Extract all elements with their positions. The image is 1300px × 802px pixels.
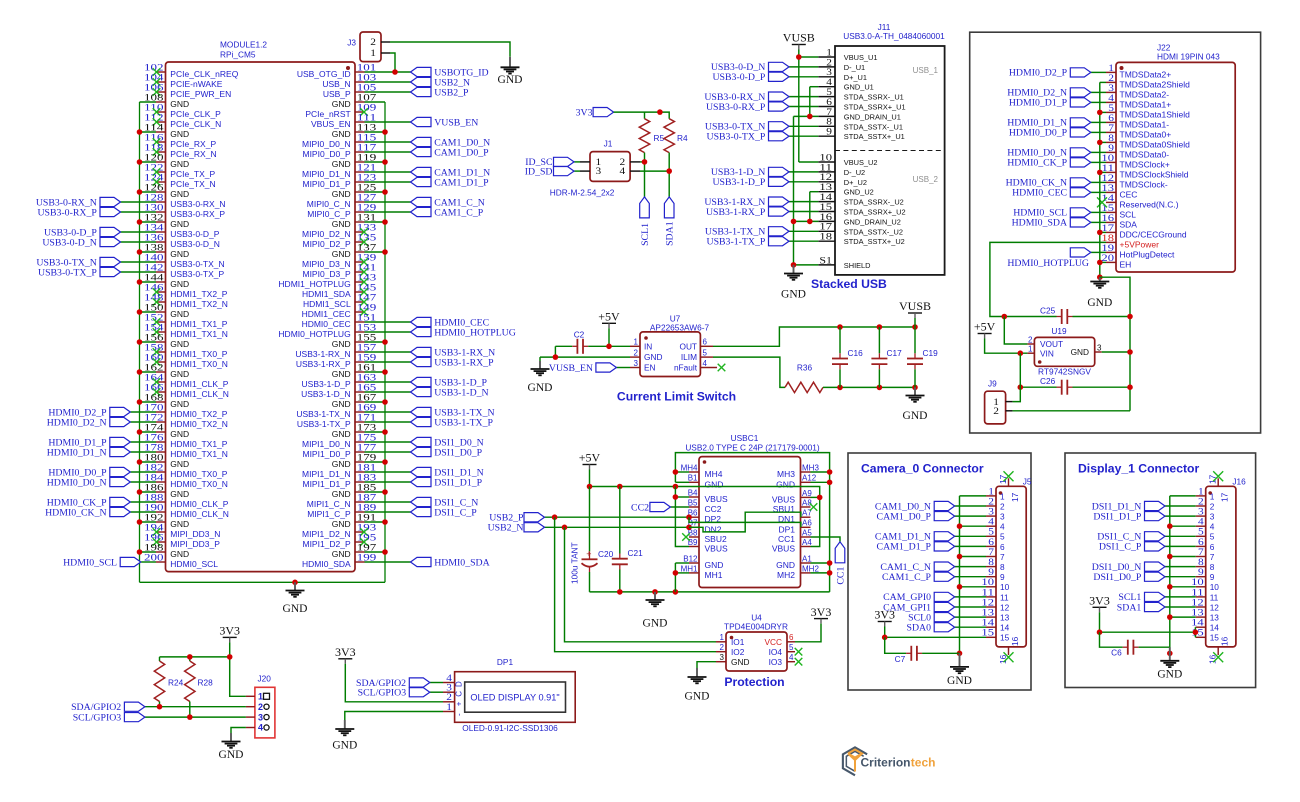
node USB3-0-D_P (44, 227, 121, 238)
junction J1 pin4 (666, 168, 672, 174)
svg-text:MIPI0_C_P: MIPI0_C_P (307, 209, 351, 219)
svg-text:Reserved(N.C.): Reserved(N.C.) (1120, 199, 1179, 209)
svg-text:C26: C26 (1040, 376, 1056, 386)
node SCL/GPIO3 at J20 (73, 712, 246, 723)
svg-text:R5: R5 (654, 133, 665, 143)
wire C26 (1020, 386, 1130, 388)
svg-text:USB2_N: USB2_N (488, 523, 524, 534)
svg-text:GND: GND (332, 489, 351, 499)
svg-text:CC1: CC1 (835, 567, 846, 585)
power VUSB at J11 (783, 31, 815, 50)
svg-text:HDMI0_D2_P: HDMI0_D2_P (1009, 68, 1068, 79)
svg-text:5: 5 (1210, 532, 1215, 542)
svg-text:USB3-0-RX_P: USB3-0-RX_P (170, 209, 225, 219)
svg-text:SCL/GPIO3: SCL/GPIO3 (358, 688, 407, 699)
svg-text:J1: J1 (604, 139, 613, 149)
svg-text:USB3.0-A-TH_0484060001: USB3.0-A-TH_0484060001 (843, 31, 945, 41)
svg-text:4: 4 (1000, 522, 1005, 532)
wire J9 pin2 (1013, 410, 1130, 412)
svg-text:TMDSData2Shield: TMDSData2Shield (1120, 79, 1191, 89)
ic U19 RT9742SNGV (1027, 326, 1102, 377)
svg-text:GND: GND (170, 279, 189, 289)
ground J11 (781, 265, 806, 301)
svg-text:TMDSData1-: TMDSData1- (1120, 119, 1170, 129)
wire C6 to GND rail (1139, 646, 1170, 648)
svg-text:nFault: nFault (674, 363, 698, 373)
svg-text:1: 1 (720, 633, 725, 642)
module right net label wires (365, 72, 411, 562)
svg-text:3: 3 (1210, 512, 1215, 522)
svg-text:MH1: MH1 (681, 564, 698, 573)
wire USBC1 bottom GND rail (590, 591, 830, 593)
power 3V3 at J16 (1089, 594, 1110, 613)
svg-text:+5V: +5V (579, 451, 601, 465)
svg-text:MIPI1_D2_P: MIPI1_D2_P (302, 539, 351, 549)
resistor R4 (664, 119, 688, 153)
junctions J5 GND rail (957, 523, 963, 656)
svg-text:GND_U1: GND_U1 (844, 83, 874, 92)
display DP1 OLED (443, 657, 575, 733)
capacitor C21 (612, 487, 643, 592)
resistor R28 (185, 661, 214, 702)
svg-text:C7: C7 (895, 654, 906, 664)
node 3V3 label at J1 (576, 107, 614, 118)
svg-text:GND: GND (170, 99, 189, 109)
svg-text:R4: R4 (677, 133, 688, 143)
junction VUSB pin1 (796, 54, 802, 60)
svg-text:MH2: MH2 (777, 570, 795, 580)
ground U7 (528, 361, 553, 394)
svg-text:MIPI0_C_N: MIPI0_C_N (307, 199, 351, 209)
svg-text:USB3-0-RX_P: USB3-0-RX_P (706, 102, 766, 113)
svg-text:1: 1 (1000, 491, 1005, 501)
svg-text:VCC: VCC (764, 637, 782, 647)
junction U7 GND C2 (553, 354, 559, 360)
no-connect J5 pin17 (1004, 471, 1014, 481)
junction R24 SDA (157, 704, 163, 710)
svg-text:HDMI1_SDA: HDMI1_SDA (302, 289, 351, 299)
svg-text:STDA_SSTX-_U2: STDA_SSTX-_U2 (844, 227, 903, 236)
svg-text:MIPI0_D0_N: MIPI0_D0_N (302, 139, 351, 149)
node HDMI0_SCL at J22 (1013, 208, 1091, 219)
svg-text:USB3-0-RX_P: USB3-0-RX_P (37, 207, 97, 218)
node DSI1_C_P (411, 507, 478, 518)
svg-text:MIPI1_C_N: MIPI1_C_N (307, 499, 351, 509)
svg-text:GND: GND (903, 410, 928, 422)
svg-text:HDMI0_TX0_P: HDMI0_TX0_P (170, 469, 227, 479)
no-connect U4 IO3 (795, 658, 803, 666)
svg-text:D: D (455, 681, 464, 687)
ground J16 (1157, 647, 1182, 681)
svg-text:DDC/CECGround: DDC/CECGround (1120, 229, 1187, 239)
svg-text:MIPI_DD3_P: MIPI_DD3_P (170, 539, 220, 549)
svg-text:4: 4 (703, 359, 708, 368)
svg-text:GND: GND (170, 519, 189, 529)
svg-text:15: 15 (1210, 633, 1220, 643)
junction U19 GND rail (1127, 349, 1133, 355)
junction C25 right (1127, 314, 1133, 320)
svg-text:GND: GND (170, 129, 189, 139)
svg-text:13: 13 (1210, 613, 1220, 623)
svg-text:C20: C20 (598, 549, 614, 559)
svg-text:2: 2 (370, 37, 376, 48)
connector USBC1 USB2.0 TYPE C 24P (681, 433, 820, 588)
node HDMI0_D2_N at J22 (1007, 88, 1091, 99)
svg-text:18: 18 (819, 232, 832, 243)
wire 3V3 to pins 14 15 (1100, 612, 1196, 637)
node CC2 (631, 502, 689, 513)
node CAM1_D1_N at J5 (875, 532, 955, 543)
svg-text:USB3-1-TX_N: USB3-1-TX_N (296, 409, 350, 419)
wires J11 signal labels (789, 67, 818, 241)
svg-text:GND: GND (170, 309, 189, 319)
svg-text:USB3-0-TX_P: USB3-0-TX_P (38, 267, 97, 278)
svg-text:GND: GND (776, 560, 795, 570)
svg-text:Criterion: Criterion (861, 755, 911, 769)
svg-text:USB2_P: USB2_P (434, 87, 469, 98)
border Display_1 Connector section (1065, 453, 1256, 688)
svg-text:9: 9 (1000, 572, 1005, 582)
svg-text:HDMI0_CEC: HDMI0_CEC (1012, 188, 1067, 199)
svg-text:3V3: 3V3 (1089, 594, 1110, 608)
svg-text:10: 10 (1210, 582, 1220, 592)
svg-text:HDMI0_TX2_P: HDMI0_TX2_P (170, 409, 227, 419)
node DSI1_D0_N (411, 437, 484, 448)
svg-text:USB3-1-RX_P: USB3-1-RX_P (434, 357, 494, 368)
svg-text:+5V: +5V (974, 320, 996, 334)
wire C25 right (1073, 316, 1131, 318)
no-connect J16 pin16 (1213, 652, 1223, 662)
svg-text:STDA_SSTX+_U1: STDA_SSTX+_U1 (844, 132, 905, 141)
node USB3-0-RX_P (37, 207, 120, 218)
svg-text:+5V: +5V (598, 310, 620, 324)
svg-text:2: 2 (258, 702, 263, 712)
svg-text:USB3-1-RX_P: USB3-1-RX_P (296, 359, 351, 369)
ground J5 (947, 653, 972, 687)
svg-text:1: 1 (446, 702, 452, 713)
svg-text:SDA1: SDA1 (1117, 602, 1142, 613)
svg-text:9: 9 (1210, 572, 1215, 582)
svg-text:MIPI0_D1_N: MIPI0_D1_N (302, 169, 351, 179)
svg-text:MIPI1_D0_N: MIPI1_D0_N (302, 439, 351, 449)
wire A5 to CC1 (811, 537, 841, 542)
svg-text:1: 1 (634, 338, 639, 347)
no-connect SBU1 (810, 503, 818, 511)
no-connect U4 IO4 (795, 648, 803, 656)
svg-text:CAM1_C_P: CAM1_C_P (434, 207, 484, 218)
wire VUSB rail J11 (799, 50, 819, 163)
svg-text:MH1: MH1 (705, 570, 723, 580)
svg-text:HDMI0_D1_P: HDMI0_D1_P (1009, 98, 1068, 109)
node HDMI0_D1_P (48, 437, 130, 448)
module left net label wires (121, 202, 157, 562)
junctions J16 GND rail (1167, 523, 1173, 656)
svg-text:A1: A1 (802, 554, 812, 563)
capacitor C7 (895, 646, 923, 664)
svg-text:HDMI 19PIN 043: HDMI 19PIN 043 (1157, 51, 1220, 61)
svg-text:A5: A5 (802, 528, 812, 537)
svg-text:J16: J16 (1232, 477, 1246, 487)
svg-text:SCL/GPIO3: SCL/GPIO3 (73, 712, 122, 723)
svg-text:-: - (455, 713, 464, 716)
module right pins (278, 62, 387, 569)
connector J9 (985, 379, 1013, 424)
node CAM1_D0_N at J5 (875, 501, 955, 512)
text Protection (724, 675, 784, 689)
node HDMI0_CK_N (45, 507, 130, 518)
svg-text:A6: A6 (802, 519, 812, 528)
svg-text:USBC1: USBC1 (731, 433, 759, 443)
node HDMI0_D1_N at J22 (1007, 118, 1091, 129)
svg-text:C6: C6 (1111, 648, 1122, 658)
svg-text:MIPI0_D3_N: MIPI0_D3_N (302, 259, 351, 269)
wires J16 labels (1165, 506, 1196, 607)
svg-text:A8: A8 (802, 498, 812, 507)
svg-text:A4: A4 (802, 538, 812, 547)
svg-text:16: 16 (1010, 636, 1020, 646)
svg-text:CC1: CC1 (778, 534, 795, 544)
svg-text:12: 12 (1000, 602, 1010, 612)
svg-text:C17: C17 (887, 348, 903, 358)
svg-text:GND: GND (170, 459, 189, 469)
no-connect J22 pin14 (1097, 197, 1107, 207)
wire 3V3 down to cap (885, 637, 906, 653)
svg-text:HDMI0_CLK_P: HDMI0_CLK_P (170, 499, 228, 509)
svg-text:STDA_SSRX-_U2: STDA_SSRX-_U2 (844, 198, 904, 207)
connector J11 USB3.0-A-TH stacked USB (818, 22, 945, 275)
svg-text:tech: tech (911, 755, 936, 769)
svg-text:HDMI0_SDA: HDMI0_SDA (302, 559, 351, 569)
svg-text:GND: GND (332, 249, 351, 259)
svg-text:HDMI1_TX1_N: HDMI1_TX1_N (170, 329, 228, 339)
node DSI1_D0_N at J16 (1092, 562, 1165, 573)
svg-text:B1: B1 (688, 474, 698, 483)
svg-text:4: 4 (789, 653, 794, 662)
node USBOTG_ID (411, 67, 489, 78)
svg-text:3: 3 (1000, 512, 1005, 522)
svg-text:HDMI0_SCL: HDMI0_SCL (63, 557, 117, 568)
svg-text:PCIe_CLK_P: PCIe_CLK_P (170, 109, 221, 119)
wire 3V3 to DP1 pin2 (345, 664, 443, 702)
svg-text:PCIE-nWAKE: PCIE-nWAKE (170, 79, 222, 89)
svg-text:B4: B4 (688, 488, 698, 497)
svg-text:GND: GND (947, 675, 972, 687)
node SCL1 (640, 197, 651, 246)
no-connect J5 pin16 (1004, 652, 1014, 662)
svg-text:DSI1_D0_P: DSI1_D0_P (1093, 572, 1141, 583)
svg-text:+: + (586, 549, 591, 559)
svg-text:SDA1: SDA1 (665, 221, 676, 246)
node CAM1_C_P at J5 (882, 572, 955, 583)
svg-text:HDMI1_SCL: HDMI1_SCL (303, 299, 351, 309)
svg-text:CAM1_D0_P: CAM1_D0_P (434, 147, 489, 158)
svg-text:16: 16 (1220, 636, 1230, 646)
node USB3-1-D_P at J11 (712, 177, 789, 188)
svg-text:2: 2 (1000, 501, 1005, 511)
svg-text:3V3: 3V3 (811, 605, 832, 619)
svg-text:MH4: MH4 (681, 463, 698, 472)
svg-text:MIPI1_D0_P: MIPI1_D0_P (302, 449, 351, 459)
svg-text:USB_OTG_ID: USB_OTG_ID (297, 69, 351, 79)
svg-text:VUSB: VUSB (783, 31, 815, 45)
svg-text:RT9742SNGV: RT9742SNGV (1038, 367, 1091, 377)
svg-text:CC2: CC2 (705, 504, 722, 514)
capacitor C25 (1040, 306, 1073, 325)
svg-text:100u TANT: 100u TANT (570, 542, 580, 584)
svg-text:MIPI1_C_P: MIPI1_C_P (307, 509, 351, 519)
node USB2_P (489, 513, 689, 524)
wire 3V3 down to cap (1100, 632, 1123, 647)
junction C26 right (1127, 384, 1133, 390)
wire J22 shield rail (1100, 82, 1106, 277)
svg-text:GND: GND (332, 369, 351, 379)
wire U7 ILIM to R36 (713, 357, 785, 387)
node HDMI0_D2_P (48, 407, 130, 418)
wire J11 shield GND rail (794, 116, 819, 265)
svg-text:GND: GND (1157, 669, 1182, 681)
svg-text:HDMI1_TX2_P: HDMI1_TX2_P (170, 289, 227, 299)
svg-text:HDMI0_D2_N: HDMI0_D2_N (47, 417, 107, 428)
node HDMI0_CK_P at J22 (1007, 158, 1091, 169)
svg-text:STDA_SSRX+_U1: STDA_SSRX+_U1 (844, 103, 906, 112)
svg-text:GND: GND (332, 99, 351, 109)
svg-text:EN: EN (644, 363, 656, 373)
capacitor C16 (832, 327, 863, 387)
svg-text:17: 17 (1220, 492, 1230, 502)
node USB2_P (411, 87, 470, 98)
junctions OUT rail (837, 324, 918, 330)
svg-text:4: 4 (258, 723, 263, 733)
node USB3-0-TX_P at J11 (707, 132, 789, 143)
svg-text:MIPI0_D0_P: MIPI0_D0_P (302, 149, 351, 159)
junction MH1 (673, 570, 679, 576)
wires J5 labels (955, 506, 986, 627)
node HDMI0_SCL (63, 557, 141, 568)
svg-text:TMDSClock-: TMDSClock- (1120, 179, 1168, 189)
wire DP1 pin1 GND (345, 712, 443, 721)
node CAM1_D1_P (411, 177, 490, 188)
wire C7 to GND rail (922, 652, 959, 654)
svg-text:ID_SD: ID_SD (525, 166, 553, 177)
ground at C19 (903, 387, 928, 422)
power 3V3 at U4 (811, 605, 832, 624)
wire U4 GND (697, 662, 716, 668)
node USB3-1-RX_N (411, 347, 496, 358)
svg-text:USB3-0-TX_P: USB3-0-TX_P (170, 269, 224, 279)
node CAM_GPI1 at J5 (883, 602, 955, 613)
svg-text:GND: GND (332, 339, 351, 349)
node USB2_N (488, 523, 689, 534)
svg-text:HDMI0_CK_P: HDMI0_CK_P (1007, 158, 1067, 169)
svg-text:7: 7 (1210, 552, 1215, 562)
svg-text:USB3-0-TX_N: USB3-0-TX_N (170, 259, 224, 269)
svg-text:3V3: 3V3 (335, 645, 356, 659)
junction R28 SCL (187, 714, 193, 720)
node USB3-0-TX_N (36, 257, 120, 268)
svg-text:HDMI1_TX1_P: HDMI1_TX1_P (170, 319, 227, 329)
junctions J11 GND (791, 114, 813, 268)
module right GND rail wire (384, 102, 386, 582)
svg-text:VBUS_EN: VBUS_EN (311, 119, 351, 129)
junction C25 left (1002, 314, 1008, 320)
svg-text:ILIM: ILIM (681, 352, 697, 362)
ground J3 (498, 57, 523, 86)
svg-text:Current Limit Switch: Current Limit Switch (617, 390, 736, 404)
svg-text:GND: GND (170, 549, 189, 559)
svg-text:USB_1: USB_1 (913, 66, 939, 75)
svg-text:C25: C25 (1040, 306, 1056, 316)
node USB3-1-D_N at J11 (711, 167, 789, 178)
svg-text:USB3-1-D_N: USB3-1-D_N (434, 387, 488, 398)
border J22 HDMI section (970, 32, 1261, 433)
svg-text:1: 1 (370, 48, 376, 59)
connector J5 (981, 474, 1031, 664)
junctions 3V3 rail (187, 654, 233, 660)
svg-text:PCIe_RX_P: PCIe_RX_P (170, 139, 216, 149)
svg-text:OLED DISPLAY 0.91": OLED DISPLAY 0.91" (470, 693, 559, 703)
svg-text:PCIe_RX_N: PCIe_RX_N (170, 149, 216, 159)
node USB3-1-D_N (411, 387, 489, 398)
svg-text:STDA_SSTX-_U1: STDA_SSTX-_U1 (844, 122, 903, 131)
node DSI1_C_P at J16 (1099, 542, 1165, 553)
svg-text:SDA/GPIO2: SDA/GPIO2 (71, 702, 121, 713)
svg-text:R28: R28 (198, 678, 214, 688)
wire DN2 to DN1 (689, 512, 801, 532)
svg-text:GND_DRAIN_U2: GND_DRAIN_U2 (844, 217, 901, 226)
svg-text:RPi_CM5: RPi_CM5 (220, 50, 256, 60)
svg-text:S1: S1 (819, 255, 832, 266)
svg-text:DP1: DP1 (497, 657, 514, 667)
svg-text:C: C (455, 691, 464, 697)
node USB3-1-RX_P at J11 (706, 207, 789, 218)
wire R24 R28 bottoms (160, 702, 190, 718)
svg-text:17: 17 (1010, 492, 1020, 502)
wire J20 pin4 GND (231, 728, 246, 734)
junction C26 left (1018, 384, 1024, 390)
svg-text:J5: J5 (1023, 477, 1032, 487)
svg-text:SDA: SDA (1120, 219, 1138, 229)
svg-text:J3: J3 (347, 38, 356, 48)
node HDMI0_D0_N (47, 477, 131, 488)
node CAM1_C_N (411, 197, 485, 208)
svg-text:1: 1 (1210, 491, 1215, 501)
svg-text:GND: GND (776, 479, 795, 489)
svg-text:3: 3 (1097, 343, 1102, 352)
junction VIN J9 (1018, 350, 1024, 356)
node HDMI0_D2_P at J22 (1009, 68, 1091, 79)
svg-text:Protection: Protection (724, 675, 784, 689)
svg-text:MIPI_DD3_N: MIPI_DD3_N (170, 529, 220, 539)
svg-text:1: 1 (1028, 345, 1033, 354)
svg-text:GND: GND (332, 549, 351, 559)
svg-text:HDMI0_TX1_N: HDMI0_TX1_N (170, 449, 228, 459)
node HDMI0_D0_P (48, 467, 130, 478)
node USB3-1-TX_N (411, 407, 495, 418)
svg-text:USB3-0-D_P: USB3-0-D_P (712, 72, 765, 83)
svg-text:OUT: OUT (679, 341, 697, 351)
svg-text:DSI1_D0_P: DSI1_D0_P (434, 447, 482, 458)
node USB2_N (411, 77, 471, 88)
svg-text:DSI1_D1_P: DSI1_D1_P (1093, 511, 1141, 522)
svg-text:GND: GND (498, 74, 523, 86)
svg-text:2: 2 (1210, 501, 1215, 511)
node USB3-1-TX_P at J11 (707, 237, 789, 248)
svg-text:D-_U2: D-_U2 (844, 168, 865, 177)
wire J1 pin2 / R5 / SCL1 (640, 153, 645, 197)
svg-text:MIPI0_D2_N: MIPI0_D2_N (302, 229, 351, 239)
svg-text:PCIe_TX_N: PCIe_TX_N (170, 179, 215, 189)
svg-text:GND: GND (332, 429, 351, 439)
